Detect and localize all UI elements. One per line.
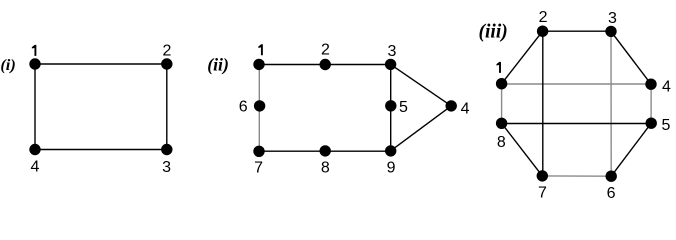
svg-text:4: 4 — [662, 78, 671, 95]
svg-text:(ii): (ii) — [207, 55, 229, 76]
svg-text:6: 6 — [239, 99, 248, 116]
svg-text:9: 9 — [387, 159, 396, 176]
svg-text:3: 3 — [608, 10, 617, 27]
svg-text:6: 6 — [607, 185, 616, 202]
svg-text:4: 4 — [31, 159, 40, 176]
svg-text:8: 8 — [497, 134, 506, 151]
svg-text:7: 7 — [538, 184, 547, 201]
svg-text:(i): (i) — [0, 55, 15, 74]
svg-text:2: 2 — [162, 43, 171, 60]
svg-text:5: 5 — [661, 117, 670, 134]
svg-text:4: 4 — [461, 100, 470, 117]
svg-text:3: 3 — [387, 43, 396, 60]
svg-text:2: 2 — [539, 9, 548, 26]
svg-text:2: 2 — [321, 42, 330, 59]
svg-text:(iii): (iii) — [479, 22, 508, 43]
svg-text:3: 3 — [162, 159, 171, 176]
svg-text:5: 5 — [399, 99, 408, 116]
svg-text:7: 7 — [254, 159, 263, 176]
svg-text:8: 8 — [321, 159, 330, 176]
